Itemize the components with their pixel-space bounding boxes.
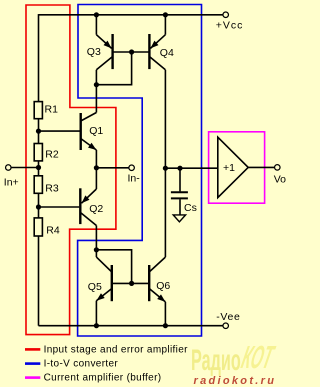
wire top mirror diode link xyxy=(96,52,131,85)
svg-text:In-: In- xyxy=(128,173,141,185)
magenta outline: current amplifier (buffer) region xyxy=(209,132,265,203)
svg-text:R2: R2 xyxy=(45,148,59,160)
wire R1 to R2 xyxy=(38,119,40,144)
wire bottom -Vee rail xyxy=(39,325,223,327)
svg-text:Vo: Vo xyxy=(274,173,286,185)
node Q3 emitter at +Vcc rail xyxy=(94,12,99,17)
wire Q3 collector to Q1 collector xyxy=(95,70,97,113)
wire R2 to R3 xyxy=(38,161,40,176)
node Q3/Q4 common base xyxy=(129,49,134,54)
node Q6 emitter at -Vee rail xyxy=(163,323,168,328)
node Q3 collector junction xyxy=(94,82,99,87)
wire Q2 emitter up xyxy=(95,168,97,189)
node Q2 collector junction xyxy=(94,247,99,252)
svg-text:R1: R1 xyxy=(45,103,59,115)
svg-text:Q1: Q1 xyxy=(89,125,103,137)
node Cs tap xyxy=(177,166,182,171)
resistor R2 xyxy=(34,144,59,161)
terminal +Vcc xyxy=(216,12,244,32)
svg-text:I-to-V converter: I-to-V converter xyxy=(44,359,119,370)
svg-text:R3: R3 xyxy=(45,183,59,195)
transistor Q6 (NPN) xyxy=(149,257,170,302)
ground arrow below Cs xyxy=(173,215,185,222)
svg-text:Current amplifier (buffer): Current amplifier (buffer) xyxy=(44,373,162,384)
wire Q3 emitter to rail xyxy=(95,15,97,35)
resistor R4 xyxy=(34,218,60,237)
wire Q2 collector to Q5 collector xyxy=(95,226,97,258)
svg-text:Q5: Q5 xyxy=(88,281,102,293)
wire Vo lead xyxy=(248,166,274,168)
wire Q5 emitter to rail xyxy=(95,301,97,326)
node Q5 emitter at -Vee rail xyxy=(94,323,99,328)
wire R4 to bottom rail xyxy=(38,236,40,326)
wire Q1 base xyxy=(39,130,80,132)
svg-text:Input stage and error amplifie: Input stage and error amplifier xyxy=(44,344,189,355)
node Q5/Q6 common base xyxy=(129,281,134,286)
wire Q6 collector to gain node xyxy=(164,168,166,257)
svg-text:R4: R4 xyxy=(46,225,60,237)
svg-text:radiokot.ru: radiokot.ru xyxy=(194,375,277,387)
transistor Q1 (NPN) xyxy=(81,113,104,151)
svg-text:In+: In+ xyxy=(4,176,19,188)
svg-text:Cs: Cs xyxy=(184,202,197,214)
terminal -Vee xyxy=(216,311,240,328)
wire top +Vcc rail xyxy=(39,14,223,16)
node gain node (Q4/Q6 collectors) xyxy=(163,166,168,171)
svg-text:Q6: Q6 xyxy=(156,280,170,292)
op-amp U1 unity-gain buffer +1 xyxy=(218,137,248,197)
wire Q6 emitter to rail xyxy=(164,302,166,326)
blue outline: I-to-V converter region xyxy=(78,5,202,337)
resistor R3 xyxy=(34,176,59,195)
node In- emitter junction xyxy=(94,165,99,170)
resistor R1 xyxy=(34,102,58,119)
legend: I-to-V converter xyxy=(25,359,118,370)
svg-text:+1: +1 xyxy=(223,162,235,174)
svg-text:+Vcc: +Vcc xyxy=(216,20,244,32)
transistor Q5 (NPN, diode-connected) xyxy=(88,257,112,301)
node Q2 base (R3/R4 junction) xyxy=(36,204,41,209)
wire bottom mirror diode link xyxy=(96,250,131,284)
wire gain node to buffer input xyxy=(165,167,217,169)
transistor Q4 (PNP) xyxy=(149,34,174,70)
wire Q4 collector to gain node xyxy=(164,70,166,168)
red outline: input stage and error amplifier region xyxy=(26,5,116,335)
wire Q4 emitter to rail xyxy=(164,15,166,35)
terminal Vo xyxy=(274,165,286,186)
terminal In+ xyxy=(4,165,19,189)
terminal In- xyxy=(128,165,141,184)
wire resistor chain top to rail xyxy=(38,14,40,102)
node In+ (R2/R3 junction) xyxy=(36,165,41,170)
wire R3 to R4 xyxy=(38,193,40,218)
transistor Q2 (PNP) xyxy=(80,188,103,225)
svg-text:Q2: Q2 xyxy=(89,203,103,215)
wire Q5-Q6 base link xyxy=(112,282,149,284)
node Q1 base (R1/R2 junction) xyxy=(36,129,41,134)
svg-text:Q4: Q4 xyxy=(160,47,174,59)
svg-text:Радио: Радио xyxy=(191,344,241,378)
svg-text:-Vee: -Vee xyxy=(216,311,240,323)
wire Q2 base xyxy=(39,206,80,208)
transistor Q3 (PNP, diode-connected) xyxy=(87,34,113,70)
legend: current amplifier (buffer) xyxy=(25,373,161,384)
capacitor Cs xyxy=(171,168,197,215)
logo Радио КОТ watermark xyxy=(191,341,278,378)
wire Q1 emitter down xyxy=(95,150,97,168)
node Q4 emitter at +Vcc rail xyxy=(163,12,168,17)
wire In- lead xyxy=(96,167,129,169)
legend: input stage and error amplifier xyxy=(25,344,188,355)
svg-text:Q3: Q3 xyxy=(87,46,101,58)
wire In+ lead xyxy=(11,167,39,169)
wire Q3-Q4 base link xyxy=(113,51,150,53)
